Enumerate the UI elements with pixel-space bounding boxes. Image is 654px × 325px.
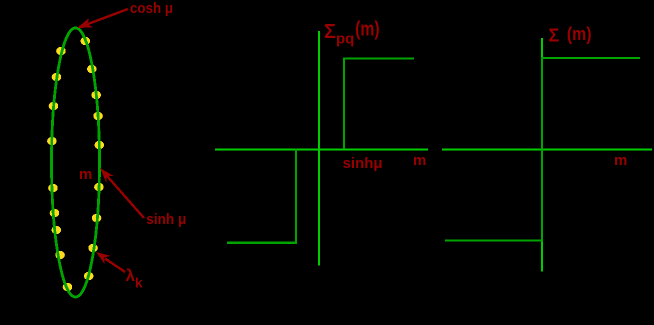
svg-text:sinhμ: sinhμ	[343, 155, 383, 172]
x axis	[215, 148, 428, 150]
step function: lower level, jump, upper level	[445, 58, 640, 241]
upper step	[344, 58, 414, 149]
svg-text:m: m	[413, 152, 426, 169]
y axis	[318, 31, 320, 266]
sinh mu arrow	[100, 168, 144, 218]
right plot: Sigma(m)	[442, 38, 652, 272]
cosh mu arrow	[77, 9, 128, 28]
lambda_k arrow	[96, 252, 125, 272]
svg-text:m: m	[614, 152, 627, 169]
svg-text:sinh μ: sinh μ	[146, 211, 186, 228]
y axis	[541, 38, 543, 272]
svg-text:m: m	[79, 166, 92, 183]
x axis	[442, 148, 652, 150]
eigenvalue dots (left side)	[47, 47, 72, 291]
svg-text:Σ(m): Σ(m)	[549, 24, 592, 45]
svg-text:cosh μ: cosh μ	[130, 0, 173, 17]
eigenvalue dots (right side)	[81, 37, 105, 280]
lower step	[227, 149, 296, 243]
middle plot: Sigma_pq(m)	[215, 31, 428, 266]
ellipse of eigenvalues	[52, 28, 100, 297]
